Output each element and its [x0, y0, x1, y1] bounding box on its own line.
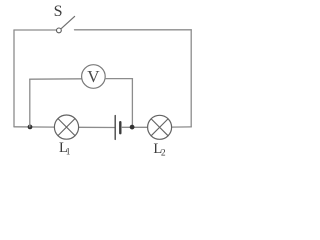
wire left vertical	[13, 30, 15, 127]
wire: lamp L2 to right corner	[172, 126, 192, 128]
node B junction dot (right)	[130, 125, 135, 130]
wire: battery to lamp L2	[122, 126, 148, 128]
battery cell: long plate (+)	[114, 116, 116, 140]
wire bottom: left corner to lamp L1	[14, 126, 54, 128]
lamp L2	[148, 115, 172, 139]
wire top-left horizontal	[14, 29, 56, 31]
svg-text:S: S	[54, 3, 63, 20]
wire top-right horizontal	[75, 29, 192, 31]
switch S	[57, 16, 75, 32]
wire voltmeter branch right vertical	[131, 79, 133, 128]
svg-text:2: 2	[161, 149, 166, 159]
battery cell: short plate (-)	[119, 122, 121, 133]
svg-text:1: 1	[66, 148, 71, 158]
voltmeter U1	[82, 65, 106, 89]
wire voltmeter branch top-left horizontal	[30, 78, 82, 80]
wire voltmeter branch top-right horizontal	[105, 78, 132, 80]
wire right vertical	[190, 30, 192, 127]
wire voltmeter branch left vertical	[29, 79, 31, 127]
wire: lamp L1 to battery	[79, 126, 115, 128]
svg-text:V: V	[87, 67, 100, 86]
node A junction dot (left)	[28, 125, 33, 130]
lamp L1	[54, 115, 78, 139]
